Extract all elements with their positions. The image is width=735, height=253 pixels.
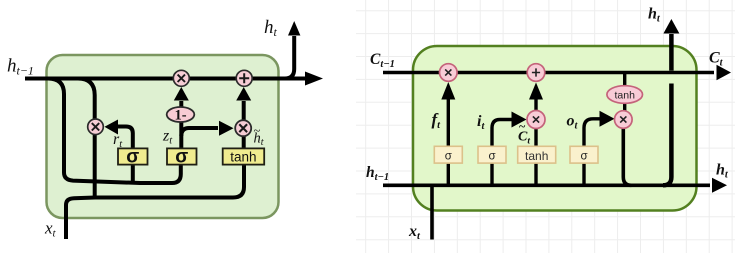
output multiply circle — [615, 111, 633, 129]
arrowhead h_t top — [288, 21, 300, 36]
svg-text:ht: ht — [716, 162, 729, 181]
arrowhead into plus — [529, 83, 543, 100]
svg-text:tanh: tanh — [230, 150, 256, 165]
svg-text:tanh: tanh — [614, 89, 635, 101]
wire tanh box up to input multiply — [534, 128, 537, 147]
wire branch1 h to gates (H1) — [48, 79, 181, 184]
LSTM sigma box o — [570, 146, 598, 163]
wire sigma r stem to H1 — [131, 164, 135, 183]
grid background (right panel graph paper) — [356, 0, 735, 253]
arrowhead into plus — [236, 87, 251, 101]
wire 1- up to main multiply — [179, 101, 183, 108]
arrowhead h_t top — [663, 19, 679, 34]
GRU cell box — [47, 55, 279, 218]
arrowhead o into output multiply — [600, 111, 615, 127]
candidate multiply circle — [235, 120, 251, 136]
wire h line — [383, 184, 710, 188]
wire C down to tanh ellipse — [623, 73, 626, 86]
tanh box (candidate) — [223, 148, 265, 164]
1- ellipse — [167, 107, 195, 122]
wire f gate up — [447, 99, 450, 147]
tanh ellipse — [607, 86, 643, 104]
svg-text:xt: xt — [44, 219, 57, 240]
plus circle — [527, 64, 545, 82]
forget multiply circle — [440, 64, 458, 82]
wire f stem below box — [447, 163, 450, 185]
svg-text:tanh: tanh — [525, 149, 548, 163]
sigma box 1 (r gate) — [118, 148, 148, 164]
arrowhead r into reset multiply — [105, 120, 119, 135]
wire i gate up and right — [492, 120, 513, 148]
svg-text:~: ~ — [254, 124, 261, 138]
LSTM sigma box f — [434, 146, 462, 163]
svg-text:ht−1: ht−1 — [7, 56, 34, 78]
wire o stem below box — [582, 163, 585, 185]
reset multiply circle — [88, 119, 104, 135]
plus circle — [236, 70, 252, 86]
arrowhead f into forget multiply — [441, 82, 455, 100]
wire o gate up and right — [584, 119, 600, 146]
wire z branch to candidate multiply — [181, 128, 218, 136]
arrowhead i into input multiply — [512, 112, 527, 128]
LSTM tanh box — [518, 146, 556, 163]
wire i stem below box — [490, 163, 493, 185]
svg-text:ht: ht — [648, 6, 661, 25]
arrowhead into main multiply — [174, 87, 189, 101]
svg-text:σ: σ — [488, 151, 495, 163]
svg-text:ht−1: ht−1 — [366, 164, 389, 183]
LSTM sigma box i — [478, 146, 506, 163]
wire output multiply down to h line — [623, 128, 631, 185]
input multiply circle — [527, 111, 545, 129]
wire input multiply up to plus — [534, 99, 537, 111]
wire tanh ellipse to output multiply — [623, 103, 626, 111]
arrowhead C_t right — [717, 65, 732, 80]
wire h branch up to h_t top — [663, 84, 671, 186]
wire branch2 h through reset multiply — [78, 79, 95, 198]
svg-text:Ct−1: Ct−1 — [370, 51, 395, 70]
arrowhead h_t right — [712, 178, 727, 193]
main multiply circle — [173, 70, 189, 86]
svg-text:σ: σ — [580, 151, 587, 163]
wire candidate multiply up to plus — [242, 101, 246, 121]
svg-text:xt: xt — [408, 223, 421, 242]
svg-text:~: ~ — [519, 119, 526, 133]
wire tanh stem below box — [534, 163, 537, 185]
sigma box 2 (z gate) — [167, 148, 197, 164]
wire x_t input — [430, 185, 434, 239]
wire z stem sigma to 1- — [179, 118, 183, 149]
wire r gate output — [117, 127, 133, 149]
wire branch to h_t top — [285, 36, 294, 79]
wire x_t input and H2 to tanh — [66, 164, 244, 239]
svg-text:Ct: Ct — [709, 50, 724, 69]
wire h main line — [25, 77, 306, 81]
wire C line — [383, 71, 714, 75]
wire tanh stem up to candidate multiply — [242, 135, 246, 149]
svg-text:σ: σ — [175, 146, 188, 167]
LSTM cell box — [413, 46, 697, 211]
arrowhead z into candidate multiply — [219, 121, 234, 136]
svg-text:σ: σ — [445, 151, 452, 163]
svg-text:1-: 1- — [174, 107, 186, 123]
svg-text:σ: σ — [126, 146, 139, 167]
svg-text:ht: ht — [264, 17, 278, 39]
arrowhead h_t right — [305, 72, 323, 86]
